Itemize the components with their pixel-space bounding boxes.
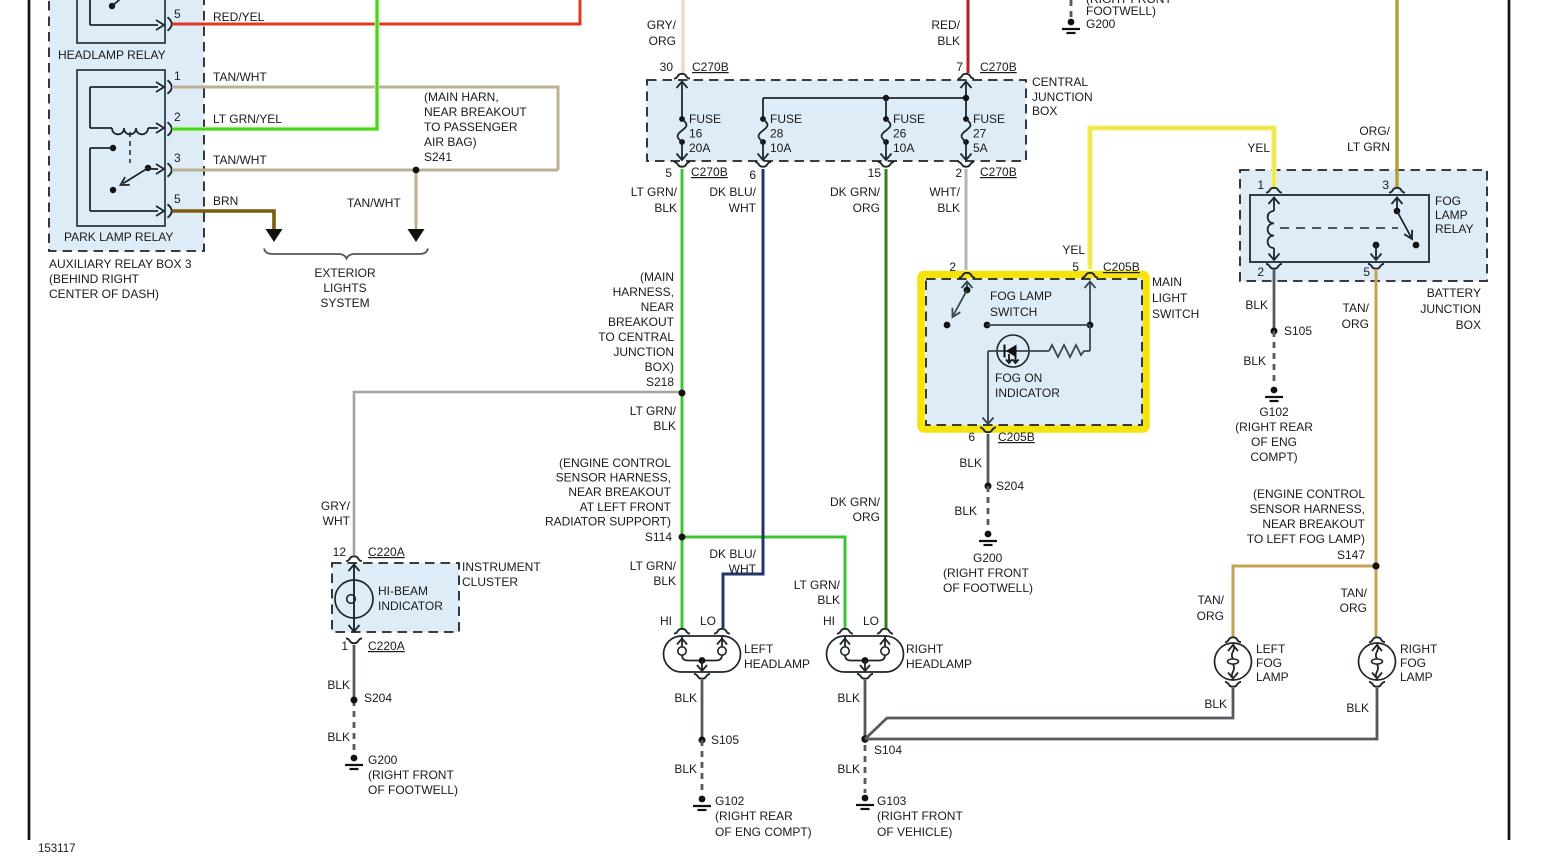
svg-text:(RIGHT REAR: (RIGHT REAR <box>1235 420 1313 434</box>
svg-text:BOX): BOX) <box>645 360 674 374</box>
svg-text:SENSOR HARNESS,: SENSOR HARNESS, <box>556 471 671 485</box>
svg-text:CLUSTER: CLUSTER <box>462 575 518 589</box>
svg-text:(ENGINE CONTROL: (ENGINE CONTROL <box>559 456 671 470</box>
svg-text:JUNCTION: JUNCTION <box>1032 90 1093 104</box>
svg-text:30: 30 <box>660 60 674 74</box>
svg-text:BLK: BLK <box>937 201 960 215</box>
svg-text:SYSTEM: SYSTEM <box>320 296 369 310</box>
svg-text:TAN/: TAN/ <box>1341 586 1368 600</box>
svg-text:BLK: BLK <box>1243 354 1266 368</box>
svg-text:TO PASSENGER: TO PASSENGER <box>424 120 518 134</box>
svg-text:INDICATOR: INDICATOR <box>378 599 443 613</box>
svg-text:AT LEFT FRONT: AT LEFT FRONT <box>580 500 672 514</box>
svg-text:SWITCH: SWITCH <box>1152 307 1199 321</box>
svg-text:TAN/: TAN/ <box>1343 301 1370 315</box>
svg-text:LAMP: LAMP <box>1435 208 1468 222</box>
svg-text:LT GRN/: LT GRN/ <box>630 404 677 418</box>
svg-text:16: 16 <box>689 127 703 141</box>
svg-text:1: 1 <box>174 69 181 83</box>
svg-text:JUNCTION: JUNCTION <box>613 345 674 359</box>
svg-text:FUSE: FUSE <box>770 112 802 126</box>
svg-text:LAMP: LAMP <box>1256 670 1289 684</box>
svg-text:3: 3 <box>1382 178 1389 192</box>
svg-text:BLK: BLK <box>653 419 676 433</box>
svg-text:3: 3 <box>174 151 181 165</box>
svg-text:BLK: BLK <box>954 504 977 518</box>
svg-text:CENTER OF DASH): CENTER OF DASH) <box>49 287 159 301</box>
svg-text:LIGHT: LIGHT <box>1152 291 1188 305</box>
svg-text:(MAIN HARN,: (MAIN HARN, <box>424 90 499 104</box>
svg-text:5A: 5A <box>973 141 988 155</box>
svg-text:FOG: FOG <box>1435 194 1461 208</box>
svg-text:C220A: C220A <box>368 639 405 653</box>
svg-text:NEAR: NEAR <box>641 300 675 314</box>
svg-text:10A: 10A <box>770 141 791 155</box>
svg-text:FUSE: FUSE <box>973 112 1005 126</box>
svg-text:C205B: C205B <box>998 430 1035 444</box>
svg-text:20A: 20A <box>689 141 710 155</box>
svg-text:TAN/WHT: TAN/WHT <box>213 153 267 167</box>
svg-text:EXTERIOR: EXTERIOR <box>314 266 376 280</box>
svg-text:FOG ON: FOG ON <box>995 371 1042 385</box>
svg-text:NEAR BREAKOUT: NEAR BREAKOUT <box>424 105 527 119</box>
svg-text:BLK: BLK <box>674 762 697 776</box>
svg-text:BLK: BLK <box>327 730 350 744</box>
svg-text:G102: G102 <box>715 794 745 808</box>
svg-text:GRY/: GRY/ <box>321 499 351 513</box>
svg-text:ORG: ORG <box>1342 317 1369 331</box>
svg-text:LO: LO <box>863 614 879 628</box>
svg-text:(BEHIND RIGHT: (BEHIND RIGHT <box>49 272 140 286</box>
svg-text:LEFT: LEFT <box>744 642 774 656</box>
svg-text:TO LEFT FOG LAMP): TO LEFT FOG LAMP) <box>1247 532 1365 546</box>
svg-text:HI: HI <box>660 614 672 628</box>
svg-text:C270B: C270B <box>980 165 1017 179</box>
svg-text:MAIN: MAIN <box>1152 275 1182 289</box>
svg-text:S147: S147 <box>1337 548 1365 562</box>
svg-text:BLK: BLK <box>837 762 860 776</box>
svg-text:ORG: ORG <box>1340 601 1367 615</box>
svg-text:LO: LO <box>700 614 716 628</box>
svg-text:LT GRN/YEL: LT GRN/YEL <box>213 112 282 126</box>
svg-text:BLK: BLK <box>674 691 697 705</box>
svg-text:15: 15 <box>868 166 882 180</box>
svg-text:1: 1 <box>1257 178 1264 192</box>
svg-text:NEAR BREAKOUT: NEAR BREAKOUT <box>1262 517 1365 531</box>
svg-text:BLK: BLK <box>1346 701 1369 715</box>
svg-text:LEFT: LEFT <box>1256 642 1286 656</box>
svg-text:BLK: BLK <box>327 678 350 692</box>
svg-text:28: 28 <box>770 127 784 141</box>
svg-text:5: 5 <box>174 7 181 21</box>
svg-text:BLK: BLK <box>654 201 677 215</box>
svg-text:27: 27 <box>973 127 987 141</box>
svg-text:WHT: WHT <box>729 562 757 576</box>
svg-text:TO CENTRAL: TO CENTRAL <box>598 330 674 344</box>
svg-text:JUNCTION: JUNCTION <box>1420 302 1481 316</box>
svg-text:ORG: ORG <box>649 34 676 48</box>
svg-text:BREAKOUT: BREAKOUT <box>608 315 675 329</box>
svg-text:5: 5 <box>1363 265 1370 279</box>
svg-text:TAN/WHT: TAN/WHT <box>347 196 401 210</box>
svg-text:26: 26 <box>893 127 907 141</box>
svg-text:YEL: YEL <box>1062 243 1085 257</box>
svg-text:OF VEHICLE): OF VEHICLE) <box>877 825 952 839</box>
svg-text:(RIGHT REAR: (RIGHT REAR <box>715 809 793 823</box>
svg-text:ORG: ORG <box>853 201 880 215</box>
svg-text:AIR BAG): AIR BAG) <box>424 135 477 149</box>
svg-text:G200: G200 <box>973 551 1003 565</box>
svg-text:S218: S218 <box>646 375 674 389</box>
svg-text:GRY/: GRY/ <box>647 18 677 32</box>
svg-text:INDICATOR: INDICATOR <box>995 386 1060 400</box>
svg-text:FOG LAMP: FOG LAMP <box>990 289 1052 303</box>
svg-text:BLK: BLK <box>817 593 840 607</box>
svg-text:10A: 10A <box>893 141 914 155</box>
svg-text:OF FOOTWELL): OF FOOTWELL) <box>943 581 1033 595</box>
svg-text:S204: S204 <box>364 691 392 705</box>
svg-text:LIGHTS: LIGHTS <box>323 281 366 295</box>
svg-text:7: 7 <box>956 60 963 74</box>
svg-text:BOX: BOX <box>1032 104 1057 118</box>
svg-text:RELAY: RELAY <box>1435 222 1473 236</box>
svg-text:(RIGHT FRONT: (RIGHT FRONT <box>368 768 454 782</box>
svg-text:G103: G103 <box>877 794 907 808</box>
svg-text:LT GRN/: LT GRN/ <box>794 578 841 592</box>
svg-text:HEADLAMP RELAY: HEADLAMP RELAY <box>58 48 166 62</box>
svg-text:C220A: C220A <box>368 545 405 559</box>
svg-text:12: 12 <box>333 545 347 559</box>
svg-text:(MAIN: (MAIN <box>640 270 674 284</box>
svg-text:BATTERY: BATTERY <box>1427 286 1481 300</box>
svg-text:DK GRN/: DK GRN/ <box>830 495 881 509</box>
svg-text:BOX: BOX <box>1456 318 1481 332</box>
svg-text:2: 2 <box>949 260 956 274</box>
svg-text:BLK: BLK <box>1245 298 1268 312</box>
svg-text:2: 2 <box>1257 265 1264 279</box>
svg-text:153117: 153117 <box>38 843 76 855</box>
svg-text:LT GRN/: LT GRN/ <box>631 185 678 199</box>
svg-text:RIGHT: RIGHT <box>1400 642 1438 656</box>
svg-text:G200: G200 <box>368 753 398 767</box>
svg-text:OF FOOTWELL): OF FOOTWELL) <box>368 783 458 797</box>
svg-text:FOOTWELL): FOOTWELL) <box>1086 4 1156 18</box>
svg-text:TAN/: TAN/ <box>1198 593 1225 607</box>
svg-text:DK GRN/: DK GRN/ <box>830 185 881 199</box>
svg-text:SENSOR HARNESS,: SENSOR HARNESS, <box>1250 502 1365 516</box>
svg-text:5: 5 <box>1072 260 1079 274</box>
svg-text:HARNESS,: HARNESS, <box>613 285 674 299</box>
svg-text:RIGHT: RIGHT <box>906 642 944 656</box>
svg-text:FOG: FOG <box>1400 656 1426 670</box>
svg-text:C270B: C270B <box>692 60 729 74</box>
svg-text:BRN: BRN <box>213 194 238 208</box>
svg-text:HI-BEAM: HI-BEAM <box>378 584 428 598</box>
svg-text:PARK LAMP RELAY: PARK LAMP RELAY <box>64 230 173 244</box>
svg-text:S105: S105 <box>711 733 739 747</box>
svg-text:BLK: BLK <box>1204 697 1227 711</box>
svg-text:BLK: BLK <box>959 456 982 470</box>
svg-text:ORG: ORG <box>853 510 880 524</box>
svg-text:(RIGHT FRONT: (RIGHT FRONT <box>877 809 963 823</box>
svg-text:COMPT): COMPT) <box>1250 450 1297 464</box>
svg-text:1: 1 <box>341 639 348 653</box>
svg-text:INSTRUMENT: INSTRUMENT <box>462 560 541 574</box>
svg-text:S114: S114 <box>645 530 672 544</box>
svg-text:RADIATOR SUPPORT): RADIATOR SUPPORT) <box>545 514 671 528</box>
svg-text:(RIGHT FRONT: (RIGHT FRONT <box>943 566 1029 580</box>
svg-text:2: 2 <box>174 110 181 124</box>
svg-text:FUSE: FUSE <box>893 112 925 126</box>
svg-text:WHT: WHT <box>729 201 757 215</box>
svg-text:FOG: FOG <box>1256 656 1282 670</box>
svg-text:BLK: BLK <box>653 574 676 588</box>
svg-text:BLK: BLK <box>937 34 960 48</box>
svg-text:C270B: C270B <box>980 60 1017 74</box>
svg-text:(ENGINE CONTROL: (ENGINE CONTROL <box>1253 487 1365 501</box>
svg-text:ORG/: ORG/ <box>1359 124 1390 138</box>
svg-text:WHT: WHT <box>323 514 351 528</box>
svg-text:YEL: YEL <box>1247 141 1270 155</box>
svg-text:SWITCH: SWITCH <box>990 305 1037 319</box>
svg-text:5: 5 <box>174 192 181 206</box>
svg-text:DK BLU/: DK BLU/ <box>709 547 756 561</box>
svg-text:HEADLAMP: HEADLAMP <box>744 657 810 671</box>
svg-text:6: 6 <box>749 168 756 182</box>
svg-text:OF ENG COMPT): OF ENG COMPT) <box>715 825 812 839</box>
svg-text:DK BLU/: DK BLU/ <box>709 185 756 199</box>
svg-text:OF ENG: OF ENG <box>1251 435 1297 449</box>
svg-text:S204: S204 <box>996 479 1024 493</box>
svg-text:LT GRN: LT GRN <box>1347 140 1390 154</box>
svg-text:RED/: RED/ <box>931 18 960 32</box>
svg-text:RED/YEL: RED/YEL <box>213 10 265 24</box>
svg-text:WHT/: WHT/ <box>929 185 960 199</box>
svg-text:C205B: C205B <box>1103 260 1140 274</box>
svg-text:ORG: ORG <box>1197 609 1224 623</box>
svg-text:HEADLAMP: HEADLAMP <box>906 657 972 671</box>
svg-text:S105: S105 <box>1284 324 1312 338</box>
svg-text:6: 6 <box>968 430 975 444</box>
svg-text:LAMP: LAMP <box>1400 670 1433 684</box>
svg-text:LT GRN/: LT GRN/ <box>630 559 677 573</box>
svg-text:HI: HI <box>823 614 835 628</box>
svg-text:BLK: BLK <box>837 691 860 705</box>
svg-text:FUSE: FUSE <box>689 112 721 126</box>
svg-text:S104: S104 <box>874 743 902 757</box>
svg-text:2: 2 <box>955 166 962 180</box>
svg-text:C270B: C270B <box>691 165 728 179</box>
svg-text:AUXILIARY RELAY BOX 3: AUXILIARY RELAY BOX 3 <box>49 257 192 271</box>
svg-text:CENTRAL: CENTRAL <box>1032 75 1088 89</box>
svg-text:TAN/WHT: TAN/WHT <box>213 70 267 84</box>
svg-text:NEAR BREAKOUT: NEAR BREAKOUT <box>568 485 671 499</box>
svg-text:G200: G200 <box>1086 17 1116 31</box>
svg-text:G102: G102 <box>1259 405 1289 419</box>
svg-text:5: 5 <box>665 166 672 180</box>
svg-text:S241: S241 <box>424 150 452 164</box>
